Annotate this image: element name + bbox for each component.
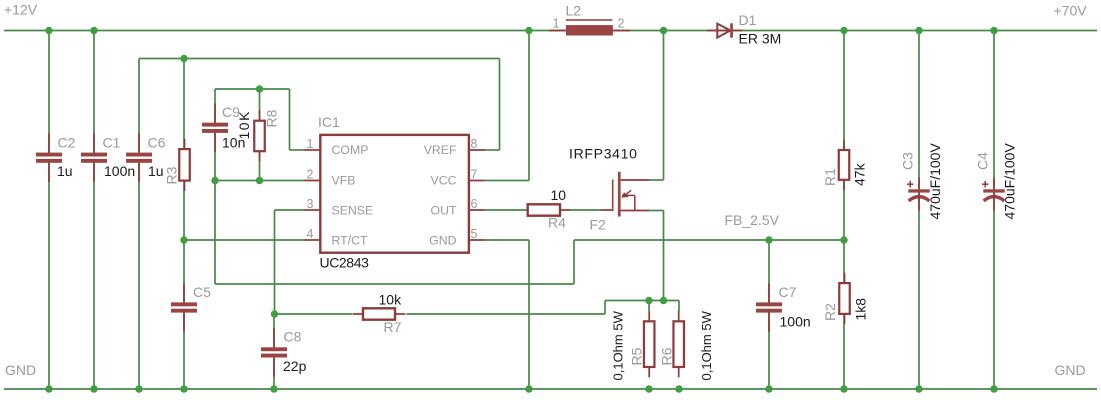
svg-text:+70V: +70V bbox=[1054, 3, 1088, 19]
value C4 470uF/100V bbox=[1002, 143, 1018, 220]
svg-text:IC1: IC1 bbox=[318, 114, 340, 130]
svg-text:4: 4 bbox=[307, 227, 314, 241]
pin name VCC bbox=[431, 174, 457, 188]
svg-text:R7: R7 bbox=[384, 319, 402, 335]
wire RT/CT bbox=[184, 239, 305, 241]
svg-text:OUT: OUT bbox=[431, 204, 457, 218]
junction VREF/R3 bbox=[180, 55, 187, 62]
svg-text:VFB: VFB bbox=[332, 174, 356, 188]
junction GND C4 bbox=[990, 385, 997, 392]
label C2 bbox=[58, 135, 76, 151]
wire sense corner bbox=[604, 301, 606, 315]
wire C2 drop bbox=[48, 31, 50, 390]
svg-text:1: 1 bbox=[553, 17, 560, 31]
junction sense/source bbox=[660, 297, 667, 304]
junction GND C7 bbox=[765, 385, 772, 392]
pin 3 bbox=[307, 197, 314, 211]
junction COMP/R8 bbox=[256, 85, 263, 92]
resistor R2 bbox=[839, 273, 850, 324]
svg-text:FB_2.5V: FB_2.5V bbox=[725, 212, 780, 228]
svg-text:GND: GND bbox=[5, 362, 36, 378]
pin name COMP bbox=[332, 143, 369, 157]
svg-text:R1: R1 bbox=[822, 168, 838, 186]
label C4 bbox=[975, 152, 991, 170]
svg-text:GND: GND bbox=[429, 234, 456, 248]
junction +12V/C1 bbox=[90, 27, 97, 34]
svg-text:100n: 100n bbox=[104, 163, 135, 179]
svg-text:10k: 10k bbox=[379, 292, 403, 308]
svg-text:R8: R8 bbox=[264, 109, 280, 127]
net GND bottom rail bbox=[4, 388, 1097, 390]
svg-text:C7: C7 bbox=[779, 284, 797, 300]
resistor R5 bbox=[644, 311, 655, 377]
svg-text:C6: C6 bbox=[148, 135, 166, 151]
label C6 bbox=[148, 135, 166, 151]
pin 6 bbox=[471, 197, 478, 211]
capacitor C2 bbox=[36, 133, 62, 182]
wire COMP top y88 bbox=[215, 88, 290, 90]
svg-text:8: 8 bbox=[471, 137, 478, 151]
resistor R6 bbox=[673, 311, 684, 377]
junction GND C6 bbox=[135, 385, 142, 392]
label R4 bbox=[548, 215, 566, 231]
pin 4 bbox=[307, 227, 314, 241]
svg-text:SENSE: SENSE bbox=[332, 204, 374, 218]
wire COMP route bbox=[290, 89, 306, 150]
svg-text:2: 2 bbox=[307, 168, 314, 182]
svg-text:1k8: 1k8 bbox=[853, 298, 869, 321]
junction sense/R5 bbox=[645, 297, 652, 304]
value ER 3M bbox=[739, 31, 782, 47]
value C1 100n bbox=[104, 163, 135, 179]
capacitor C1 bbox=[81, 133, 107, 182]
wire FB y284 bbox=[215, 283, 574, 285]
junction R1 rail bbox=[840, 27, 847, 34]
junction VFB/R8 bbox=[256, 177, 263, 184]
label C1 bbox=[103, 135, 121, 151]
wire R5 top bbox=[648, 301, 650, 312]
junction drain rail bbox=[660, 27, 667, 34]
pin name VFB bbox=[332, 174, 356, 188]
pin 5 bbox=[471, 227, 478, 241]
svg-text:R5: R5 bbox=[629, 347, 645, 365]
svg-text:C8: C8 bbox=[284, 329, 302, 345]
capacitor C8 bbox=[261, 328, 287, 377]
svg-text:GND: GND bbox=[1055, 362, 1086, 378]
pin name VREF bbox=[424, 143, 457, 157]
value R1 47k bbox=[852, 162, 868, 186]
value R4 10 bbox=[551, 187, 567, 203]
transistor F2 bbox=[600, 172, 649, 217]
svg-text:R2: R2 bbox=[822, 303, 838, 321]
svg-text:C5: C5 bbox=[193, 284, 211, 300]
pin L2 2 bbox=[618, 17, 625, 31]
label R1 bbox=[822, 168, 838, 186]
label C8 bbox=[284, 329, 302, 345]
svg-text:VCC: VCC bbox=[431, 174, 457, 188]
junction C4 rail bbox=[990, 27, 997, 34]
value R5 0,1Ohm 5W bbox=[611, 310, 626, 380]
label R7 bbox=[384, 319, 402, 335]
wire FB_2.5V y240 bbox=[574, 239, 844, 241]
wire R6 top drop bbox=[678, 301, 680, 312]
svg-text:IRFP3410: IRFP3410 bbox=[569, 146, 638, 162]
svg-text:F2: F2 bbox=[590, 217, 607, 233]
capacitor C7 bbox=[756, 283, 782, 332]
pin 2 bbox=[307, 168, 314, 182]
label R6 bbox=[659, 347, 675, 365]
svg-text:R3: R3 bbox=[164, 166, 180, 184]
inductor L2 bbox=[549, 20, 630, 36]
svg-text:R6: R6 bbox=[659, 347, 675, 365]
pin name GND bbox=[429, 234, 456, 248]
svg-text:0,1Ohm 5W: 0,1Ohm 5W bbox=[699, 310, 714, 380]
capacitor C5 bbox=[171, 283, 197, 332]
wire R3/C5 column bbox=[183, 59, 185, 390]
capacitor C9 bbox=[202, 104, 228, 153]
resistor R8 bbox=[254, 110, 265, 161]
value R2 1k8 bbox=[853, 298, 869, 321]
wire VREF horizontal y58 bbox=[139, 58, 500, 60]
label R3 bbox=[164, 166, 180, 184]
resistor R1 bbox=[839, 140, 850, 190]
junction GND IC bbox=[525, 385, 532, 392]
junction GND R2 bbox=[840, 385, 847, 392]
svg-text:+12V: +12V bbox=[4, 2, 38, 18]
label +70V bbox=[1054, 3, 1088, 19]
svg-text:C3: C3 bbox=[900, 152, 916, 170]
wire VREF down to pin8 bbox=[485, 59, 500, 151]
svg-text:100n: 100n bbox=[780, 314, 811, 330]
wire C6 drop bbox=[138, 59, 140, 390]
wire IC GND bbox=[485, 240, 529, 389]
resistor R3 bbox=[179, 139, 190, 191]
svg-text:COMP: COMP bbox=[332, 143, 369, 157]
wire R1/R2 column bbox=[843, 31, 845, 390]
junction GND C5 bbox=[180, 385, 187, 392]
wire C9 column bbox=[214, 89, 216, 284]
capacitor C6 bbox=[126, 133, 152, 182]
label R8 bbox=[264, 109, 280, 127]
svg-text:L2: L2 bbox=[566, 3, 582, 19]
label GND left bbox=[5, 362, 36, 378]
svg-text:2: 2 bbox=[618, 17, 625, 31]
resistor R7 bbox=[353, 308, 406, 319]
svg-text:47k: 47k bbox=[852, 162, 868, 186]
label IC1 bbox=[318, 114, 340, 130]
label C3 bbox=[900, 152, 916, 170]
junction VCC rail bbox=[525, 27, 532, 34]
svg-text:C2: C2 bbox=[58, 135, 76, 151]
capacitor C3 (polarized) bbox=[907, 178, 930, 211]
value R7 10k bbox=[379, 292, 403, 308]
svg-text:10: 10 bbox=[551, 187, 567, 203]
label F2 bbox=[590, 217, 607, 233]
value IRFP3410 bbox=[569, 146, 638, 162]
junction GND C2 bbox=[45, 385, 52, 392]
junction GND C8 bbox=[270, 385, 277, 392]
junction FB/C7 bbox=[765, 236, 772, 243]
wire source green bbox=[649, 210, 664, 212]
value C7 100n bbox=[780, 314, 811, 330]
wire OUT to R4 bbox=[485, 209, 528, 211]
label L2 bbox=[566, 3, 582, 19]
label R2 bbox=[822, 303, 838, 321]
wire VFB bbox=[215, 180, 305, 182]
junction VFB/C9 bbox=[211, 177, 218, 184]
op-amp U1 / IC1 UC2843 body bbox=[305, 135, 486, 253]
diode D1 bbox=[707, 23, 742, 37]
svg-text:470uF/100V: 470uF/100V bbox=[927, 143, 943, 220]
svg-text:1: 1 bbox=[307, 137, 314, 151]
wire drain up bbox=[649, 31, 664, 181]
svg-text:470uF/100V: 470uF/100V bbox=[1002, 143, 1018, 220]
wire C1 drop bbox=[93, 31, 95, 390]
junction +12V/C2 bbox=[45, 27, 52, 34]
label FB_2.5V bbox=[725, 212, 780, 228]
value UC2843 bbox=[320, 255, 370, 271]
value C2 1u bbox=[57, 163, 73, 179]
svg-text:22p: 22p bbox=[283, 358, 307, 374]
svg-text:0,1Ohm 5W: 0,1Ohm 5W bbox=[611, 310, 626, 380]
svg-text:R4: R4 bbox=[548, 215, 566, 231]
wire C4 drop bbox=[993, 31, 995, 390]
svg-text:VREF: VREF bbox=[424, 143, 457, 157]
label R5 bbox=[629, 347, 645, 365]
label C7 bbox=[779, 284, 797, 300]
label C5 bbox=[193, 284, 211, 300]
value C8 22p bbox=[283, 358, 307, 374]
wire R4 to gate bbox=[571, 209, 601, 211]
junction GND C3 bbox=[915, 385, 922, 392]
net +12V/+70V top rail bbox=[4, 30, 1097, 32]
svg-text:C1: C1 bbox=[103, 135, 121, 151]
label D1 bbox=[739, 12, 757, 28]
svg-text:RT/CT: RT/CT bbox=[332, 234, 368, 248]
value C9 10n bbox=[222, 135, 245, 151]
junction SENSE/C8/R7 bbox=[271, 310, 278, 317]
capacitor C4 (polarized) bbox=[982, 178, 1005, 211]
wire C3 drop bbox=[918, 31, 920, 390]
value C6 1u bbox=[148, 163, 164, 179]
resistor R4 bbox=[528, 204, 571, 215]
svg-text:C4: C4 bbox=[975, 152, 991, 170]
label +12V bbox=[4, 2, 38, 18]
wire FB riser x574 bbox=[573, 240, 575, 284]
junction GND R6 bbox=[675, 385, 682, 392]
svg-text:ER 3M: ER 3M bbox=[739, 31, 782, 47]
wire sense node row bbox=[605, 300, 679, 302]
pin L2 1 bbox=[553, 17, 560, 31]
pin 7 bbox=[471, 168, 478, 182]
junction C3 rail bbox=[915, 27, 922, 34]
svg-text:7: 7 bbox=[471, 168, 478, 182]
value C3 470uF/100V bbox=[927, 143, 943, 220]
wire R7 net left bbox=[275, 313, 353, 315]
wire R7 net right bbox=[407, 313, 606, 315]
pin name OUT bbox=[431, 204, 457, 218]
svg-text:6: 6 bbox=[471, 197, 478, 211]
pin name RT/CT bbox=[332, 234, 368, 248]
wire R8 column bbox=[259, 89, 261, 181]
value R6 0,1Ohm 5W bbox=[699, 310, 714, 380]
svg-text:UC2843: UC2843 bbox=[320, 255, 370, 271]
junction RT-CT/R3 bbox=[180, 236, 187, 243]
svg-text:3: 3 bbox=[307, 197, 314, 211]
wire SENSE bbox=[275, 210, 306, 314]
label C9 bbox=[222, 104, 240, 120]
wire source drop bbox=[663, 210, 665, 301]
svg-text:1u: 1u bbox=[148, 163, 164, 179]
junction GND R5 bbox=[645, 385, 652, 392]
pin name SENSE bbox=[332, 204, 374, 218]
svg-text:5: 5 bbox=[471, 227, 478, 241]
value R8 10K bbox=[236, 110, 252, 139]
pin 1 bbox=[307, 137, 314, 151]
svg-text:10K: 10K bbox=[236, 110, 252, 139]
wire VCC bbox=[485, 31, 529, 181]
wire C7 drop bbox=[768, 240, 770, 389]
svg-text:1u: 1u bbox=[57, 163, 73, 179]
wire C8 drop bbox=[273, 314, 275, 389]
label GND right bbox=[1055, 362, 1086, 378]
junction FB/R1/R2 bbox=[840, 236, 847, 243]
svg-text:D1: D1 bbox=[739, 12, 757, 28]
junction GND C1 bbox=[90, 385, 97, 392]
pin 8 bbox=[471, 137, 478, 151]
